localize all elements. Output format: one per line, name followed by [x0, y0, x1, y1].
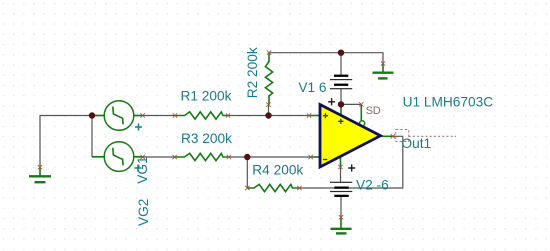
- resistor R3: [175, 153, 229, 160]
- battery V1 plus marker: [328, 98, 335, 105]
- wire R1 to node B: [228, 115, 269, 117]
- svg-text:R3 200k: R3 200k: [181, 131, 232, 146]
- wire V1 bottom to op-amp V+ node: [340, 89, 342, 105]
- ground: [29, 167, 51, 182]
- svg-text:U1 LMH6703C: U1 LMH6703C: [403, 95, 494, 110]
- battery V2: [330, 182, 352, 197]
- voltage generator VG1: [92, 101, 143, 131]
- svg-text:V1 6: V1 6: [298, 80, 327, 95]
- voltage generator VG2: [92, 142, 143, 172]
- label VG1 (rotated): [135, 156, 150, 183]
- op-amp noninverting input marker: [323, 113, 328, 118]
- op-amp U1 power pin V-: [340, 154, 342, 167]
- svg-text:R2 200k: R2 200k: [245, 47, 260, 98]
- junction V+ node: [338, 101, 344, 107]
- VG1 plus polarity: [135, 124, 142, 131]
- wire VG1 to R1: [143, 115, 175, 117]
- svg-text:R4 200k: R4 200k: [252, 162, 303, 177]
- junction V1 top: [338, 50, 344, 56]
- svg-text:V2 -6: V2 -6: [356, 178, 389, 193]
- wire V1 top: [340, 53, 342, 75]
- label V1 value: [298, 80, 327, 95]
- svg-text:SD: SD: [366, 105, 381, 117]
- wire V+ node to SD pin: [341, 103, 361, 105]
- op-amp U1 triangle: [320, 105, 381, 168]
- pin cross marks: [38, 51, 395, 220]
- label VG2 (rotated): [136, 199, 151, 226]
- wire ground1 to node A: [40, 116, 92, 168]
- junction node A: [89, 112, 95, 118]
- label Out1: [402, 136, 432, 151]
- op-amp U1 power pin V+: [340, 104, 342, 115]
- wire node C to op-amp inverting input: [247, 156, 310, 158]
- label R1 value: [181, 88, 232, 103]
- op-amp U1 SD pin: [360, 104, 365, 126]
- junction node C: [244, 154, 250, 160]
- label R2 value (rotated): [245, 47, 260, 98]
- label SD: [366, 105, 381, 117]
- resistor R4: [247, 184, 299, 191]
- battery V2 plus marker: [348, 165, 355, 172]
- label V2 value: [356, 178, 389, 193]
- op-amp V+ marker: [338, 119, 343, 124]
- wire R2 bottom to node B: [268, 105, 270, 116]
- wire node B to op-amp noninverting input: [269, 115, 310, 117]
- wire V2 bottom to ground3: [340, 196, 342, 217]
- label R4 value: [252, 162, 303, 177]
- ground: [373, 64, 394, 79]
- wire top rail R2 to ground2: [269, 53, 383, 64]
- svg-text:R1 200k: R1 200k: [181, 88, 232, 103]
- output marker dashed box: [396, 130, 409, 142]
- svg-text:Out1: Out1: [402, 136, 432, 151]
- wire VG2 to R3: [143, 156, 175, 158]
- wire node A down to VG2: [91, 116, 93, 158]
- svg-text:VG2: VG2: [136, 199, 151, 226]
- op-amp U1 input lead inverting: [311, 156, 320, 158]
- wire op-amp V- to V2 top: [340, 167, 342, 182]
- op-amp U1 output lead: [381, 135, 393, 137]
- wire R4 to output feedback corner: [299, 136, 402, 188]
- resistor R1: [175, 112, 228, 119]
- VG2 plus polarity: [135, 165, 142, 172]
- battery V1: [330, 75, 352, 90]
- label R3 value: [181, 131, 232, 146]
- wire R3 to node C: [229, 156, 247, 158]
- wire op-amp output to corner: [393, 135, 403, 137]
- junction node B: [265, 112, 271, 118]
- dashed wire Out1: [409, 135, 456, 137]
- ground: [331, 217, 352, 233]
- op-amp U1 input lead noninverting: [309, 115, 320, 117]
- resistor R2: [265, 53, 272, 105]
- wire node C down to R4: [246, 157, 248, 188]
- label U1 type: [403, 95, 494, 110]
- op-amp inverting input marker: [323, 159, 327, 161]
